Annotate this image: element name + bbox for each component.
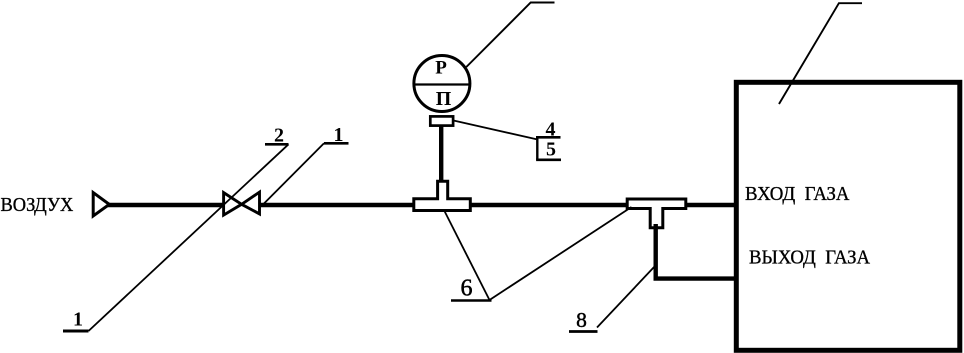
gauge connector rectangle	[430, 116, 453, 125]
svg-text:5: 5	[546, 139, 556, 161]
gauge divider line	[415, 83, 470, 85]
valve (bowtie) left triangle	[224, 193, 242, 216]
label 5 bracket left	[536, 137, 538, 160]
leader label 2 to label 1 (through valve)	[89, 144, 289, 331]
label 8 underline	[569, 330, 598, 333]
label 2 underline	[265, 143, 289, 146]
svg-text:П: П	[436, 88, 452, 110]
label 1 top underline	[324, 142, 349, 145]
label 4 underline	[536, 136, 561, 139]
gauge circle U1	[414, 56, 470, 112]
leader to device box (label 7 cut off)	[779, 3, 862, 104]
svg-text:8: 8	[576, 308, 587, 332]
device box	[736, 82, 960, 350]
label 1 bottom underline	[63, 330, 89, 333]
tee T2 (branch down)	[627, 199, 686, 228]
svg-text:6: 6	[461, 276, 473, 302]
air inlet arrow	[93, 193, 109, 216]
pipe: valve to tee T1	[260, 203, 420, 208]
svg-text:ВХОД ГАЗА: ВХОД ГАЗА	[745, 183, 850, 205]
svg-text:ВЫХОД ГАЗА: ВЫХОД ГАЗА	[749, 247, 870, 269]
svg-text:ВОЗДУХ: ВОЗДУХ	[1, 194, 74, 216]
vertical line gauge to tee T1	[439, 124, 443, 183]
leader to gauge (label 3 cut off)	[466, 3, 554, 68]
leader label 1 to pipe	[264, 143, 325, 204]
leader from gauge connector to label 4/5	[454, 121, 537, 140]
pipe: tee T2 to box inlet	[680, 203, 737, 208]
leader label 6 to tee T1	[444, 211, 489, 301]
tee T1 (branch up)	[414, 181, 471, 210]
leader label 6 to tee T2	[490, 207, 632, 300]
valve (bowtie) right triangle	[242, 192, 260, 214]
svg-text:1: 1	[73, 309, 83, 331]
pipe: air inlet to valve	[107, 203, 223, 208]
leader label 8 to loop line	[597, 266, 655, 328]
pipe: tee T1 to tee T2	[465, 203, 640, 208]
svg-text:Р: Р	[435, 57, 447, 78]
label 5 bracket bottom	[536, 159, 561, 162]
outlet loop: down from tee T2 then right into box	[656, 224, 737, 279]
label 6 underline	[451, 299, 492, 301]
